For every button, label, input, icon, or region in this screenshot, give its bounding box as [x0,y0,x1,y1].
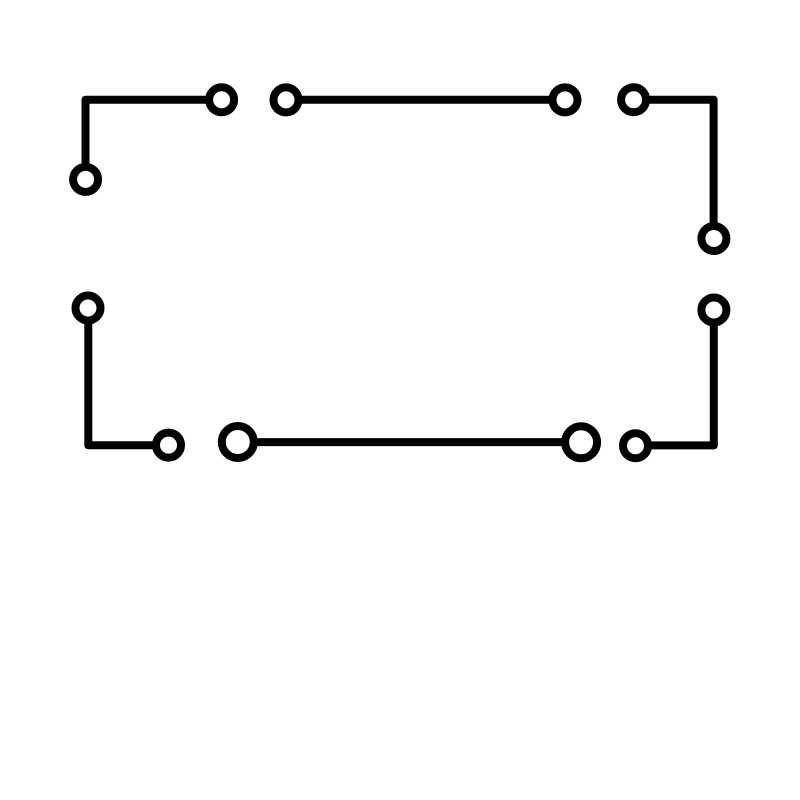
wire W2 top-middle horizontal segment [286,96,565,104]
terminal T11 large pad (left end of W6) [222,426,254,458]
terminal T10 (right end of W5) [156,433,181,458]
wire W4 right-middle L segment [636,310,714,445]
terminal T9 (top end of W5) [76,296,101,321]
terminal T3 (left end of W2) [274,87,299,112]
wire W3 top-right L segment [634,100,714,239]
terminal T8 (left end of W4) [623,433,648,458]
terminal T6 (bottom end of W3) [701,226,726,251]
terminal T5 (left end of W3) [621,87,646,112]
wire W1 top-left L segment [86,100,222,180]
terminal T4 (right end of W2) [553,87,578,112]
wire W5 left-middle L segment [88,308,168,445]
terminal T12 large pad (right end of W6) [565,426,597,458]
terminal T2 (bottom end of W1) [73,167,98,192]
terminal T7 (top end of W4) [701,298,726,323]
wire W6 bottom-middle horizontal segment [238,438,581,446]
terminal T1 (right end of W1) [209,87,234,112]
